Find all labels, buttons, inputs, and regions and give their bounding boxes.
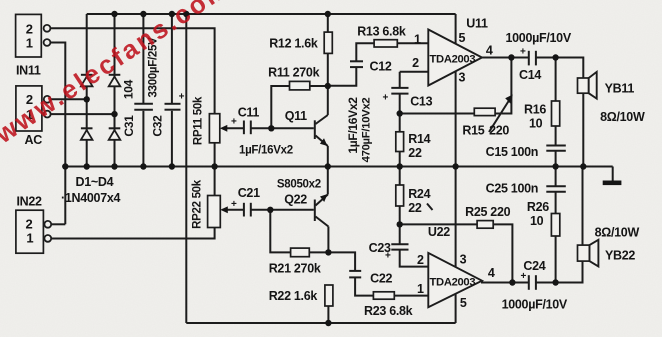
capacitor C25 <box>486 167 566 196</box>
wire collector node to C12 <box>328 67 357 86</box>
svg-text:Q22: Q22 <box>284 193 307 207</box>
svg-text:RP22 50k: RP22 50k <box>192 179 204 229</box>
svg-text:+: + <box>383 93 389 104</box>
svg-text:R13 6.8k: R13 6.8k <box>357 25 406 39</box>
svg-text:1: 1 <box>26 36 33 51</box>
svg-text:5: 5 <box>459 31 466 45</box>
wire IN22 pin1 to RP22 bottom <box>51 228 214 239</box>
capacitor C24 <box>502 259 568 312</box>
wire IN22 pin2 <box>51 223 65 225</box>
wire AC pin2 <box>51 98 87 100</box>
wire C11 to Q11 base <box>251 127 314 129</box>
svg-text:3: 3 <box>460 253 467 267</box>
diode D4 <box>109 128 121 140</box>
wire RP22 top to bus <box>214 167 216 196</box>
diode D2 <box>109 75 121 87</box>
wire C32 branch <box>171 14 173 104</box>
svg-text:YB22: YB22 <box>605 249 635 263</box>
wire Q22 collector down <box>327 227 329 253</box>
diode D3 <box>81 128 93 140</box>
svg-text:·1N4007x4: ·1N4007x4 <box>61 191 121 205</box>
svg-text:TDA2003: TDA2003 <box>430 54 476 66</box>
svg-text:C22: C22 <box>370 272 392 286</box>
svg-text:R24: R24 <box>408 187 430 201</box>
potentiometer RP11 <box>193 96 244 145</box>
connector AC <box>16 86 51 147</box>
wire U11 pin2 <box>400 71 429 73</box>
wire C23 to U22 pin2 <box>400 250 429 267</box>
svg-text:R16: R16 <box>524 103 546 117</box>
svg-text:R11 270k: R11 270k <box>268 66 319 80</box>
svg-text:R25 220: R25 220 <box>465 205 511 219</box>
svg-text:2: 2 <box>26 217 33 232</box>
svg-text:S8050x2: S8050x2 <box>277 179 321 191</box>
wire U22 pin5 to bottom rail <box>455 294 457 323</box>
wire outer loop left vertical <box>185 14 187 323</box>
svg-text:R14: R14 <box>408 132 430 146</box>
wire C21 to Q22 base <box>251 209 314 211</box>
svg-text:YB11: YB11 <box>605 82 635 96</box>
svg-text:C14: C14 <box>519 68 541 82</box>
svg-text:8Ω/10W: 8Ω/10W <box>600 110 645 124</box>
resistor R21 <box>269 210 329 276</box>
speaker YB22 <box>578 167 640 267</box>
svg-text:C32: C32 <box>151 115 165 137</box>
svg-text:R23 6.8k: R23 6.8k <box>364 304 413 318</box>
svg-text:C15 100n: C15 100n <box>486 145 538 159</box>
svg-text:TDA2003: TDA2003 <box>430 277 476 289</box>
svg-text:2: 2 <box>417 253 424 267</box>
svg-text:U11: U11 <box>466 17 488 31</box>
svg-text:22: 22 <box>408 146 422 160</box>
resistor R14 <box>396 132 431 167</box>
svg-text:1µF/16Vx2: 1µF/16Vx2 <box>346 97 360 154</box>
svg-text:104: 104 <box>122 79 136 99</box>
wire Q11 collector up <box>327 86 329 115</box>
wire bottom rail <box>186 322 455 324</box>
wire IN11 pin2 to RP11 top <box>50 28 214 113</box>
svg-text:Q11: Q11 <box>285 109 307 123</box>
svg-text:1: 1 <box>414 33 421 47</box>
svg-text:2: 2 <box>412 56 419 70</box>
svg-text:+: + <box>231 199 237 210</box>
svg-text:220: 220 <box>489 124 509 138</box>
capacitor C32 <box>148 37 185 137</box>
wire Q11 emitter down to bus <box>327 146 329 167</box>
svg-text:C24: C24 <box>523 259 545 273</box>
capacitor C31 <box>122 79 153 136</box>
svg-text:4: 4 <box>486 44 493 58</box>
diode D1 <box>81 75 93 87</box>
capacitor C15 <box>486 145 566 167</box>
svg-text:1000µF/10V: 1000µF/10V <box>506 31 572 45</box>
node other junctions <box>84 54 559 326</box>
svg-text:+: + <box>231 117 237 128</box>
wire C12 to R13 <box>356 43 374 61</box>
resistor R11 <box>268 66 328 129</box>
capacitor C12 <box>350 60 392 74</box>
wire C14 to speaker <box>536 58 583 79</box>
svg-text:3: 3 <box>459 71 466 85</box>
wire U11 output <box>482 57 529 59</box>
svg-text:RP11 50k: RP11 50k <box>193 96 205 145</box>
wire AC pin1 <box>51 113 115 115</box>
svg-text:2: 2 <box>26 22 33 37</box>
potentiometer RP22 <box>192 179 244 229</box>
resistor R25 <box>400 205 513 283</box>
node mid bus junctions <box>62 163 586 169</box>
svg-text:C12: C12 <box>370 60 392 74</box>
resistor R26 <box>527 192 560 283</box>
svg-text:+: + <box>179 92 185 103</box>
svg-text:10: 10 <box>530 214 544 228</box>
wire bridge leg 1 <box>86 14 88 167</box>
resistor R13 <box>357 25 406 48</box>
wire RP11 bottom to bus <box>214 143 216 167</box>
svg-text:R15: R15 <box>462 124 484 138</box>
svg-text:10: 10 <box>529 117 543 131</box>
svg-text:8Ω/10W: 8Ω/10W <box>595 226 640 240</box>
resistor R12 <box>269 14 332 86</box>
svg-text:470µF/10Vx2: 470µF/10Vx2 <box>361 98 373 163</box>
svg-text:R21 270k: R21 270k <box>269 262 321 276</box>
resistor R16 <box>524 58 560 146</box>
capacitor C13 <box>383 72 433 109</box>
svg-text:C11: C11 <box>238 106 260 120</box>
svg-text:+: + <box>520 47 526 58</box>
svg-text:IN22: IN22 <box>17 195 43 209</box>
wire U22 output <box>482 281 529 283</box>
wire Q22 emitter up to bus <box>327 167 329 195</box>
wire bridge leg 2 <box>114 14 116 167</box>
svg-text:C23: C23 <box>369 241 391 255</box>
svg-text:C21: C21 <box>238 186 260 200</box>
svg-text:1µF/16Vx2: 1µF/16Vx2 <box>239 145 293 157</box>
ground <box>603 167 622 186</box>
connector IN11 <box>16 14 51 77</box>
svg-text:4: 4 <box>488 266 495 280</box>
capacitor C23 <box>369 224 409 261</box>
resistor R15 <box>400 58 513 138</box>
wire mid bus <box>65 166 612 168</box>
op-amp U22 <box>417 167 495 311</box>
wire IN11 pin1 vertical <box>50 43 65 225</box>
capacitor C14 <box>506 31 572 82</box>
svg-text:1: 1 <box>417 282 424 296</box>
capacitor C11 <box>231 106 293 157</box>
wire C13 bottom to R14 <box>399 94 401 132</box>
transistor Q11 <box>285 109 328 146</box>
svg-text:1: 1 <box>26 231 33 246</box>
svg-text:1000µF/10V: 1000µF/10V <box>502 298 568 312</box>
wire C31 branch <box>142 14 144 104</box>
resistor R22 <box>269 285 333 323</box>
svg-text:C25 100n: C25 100n <box>486 182 538 196</box>
wire U22 pin1 <box>394 295 428 297</box>
svg-text:R12 1.6k: R12 1.6k <box>269 37 318 51</box>
svg-text:C13: C13 <box>410 95 432 109</box>
connector IN22 <box>16 195 51 254</box>
svg-text:C31: C31 <box>122 115 136 137</box>
resistor R24 <box>396 167 433 225</box>
svg-text:IN11: IN11 <box>16 64 41 78</box>
node top rail junctions <box>111 11 331 17</box>
wire top rail <box>87 13 456 15</box>
wire R13 to U11 pin1 <box>397 42 428 44</box>
svg-text:R22 1.6k: R22 1.6k <box>269 289 318 303</box>
svg-text:U22: U22 <box>428 225 450 239</box>
transistor Q22 <box>277 179 329 227</box>
wire C22 to collector node <box>328 252 355 271</box>
wire U11 pin3 to bus <box>455 71 457 167</box>
op-amp U11 <box>412 14 493 86</box>
capacitor C21 <box>231 186 260 217</box>
svg-text:D1~D4: D1~D4 <box>76 175 114 189</box>
svg-text:22: 22 <box>408 201 422 215</box>
speaker YB11 <box>578 72 645 167</box>
wire C24 to speaker YB22 <box>536 261 583 282</box>
resistor R23 <box>355 277 413 318</box>
capacitor C22 <box>349 271 392 286</box>
svg-text:R26: R26 <box>527 200 549 214</box>
svg-text:5: 5 <box>460 296 467 310</box>
